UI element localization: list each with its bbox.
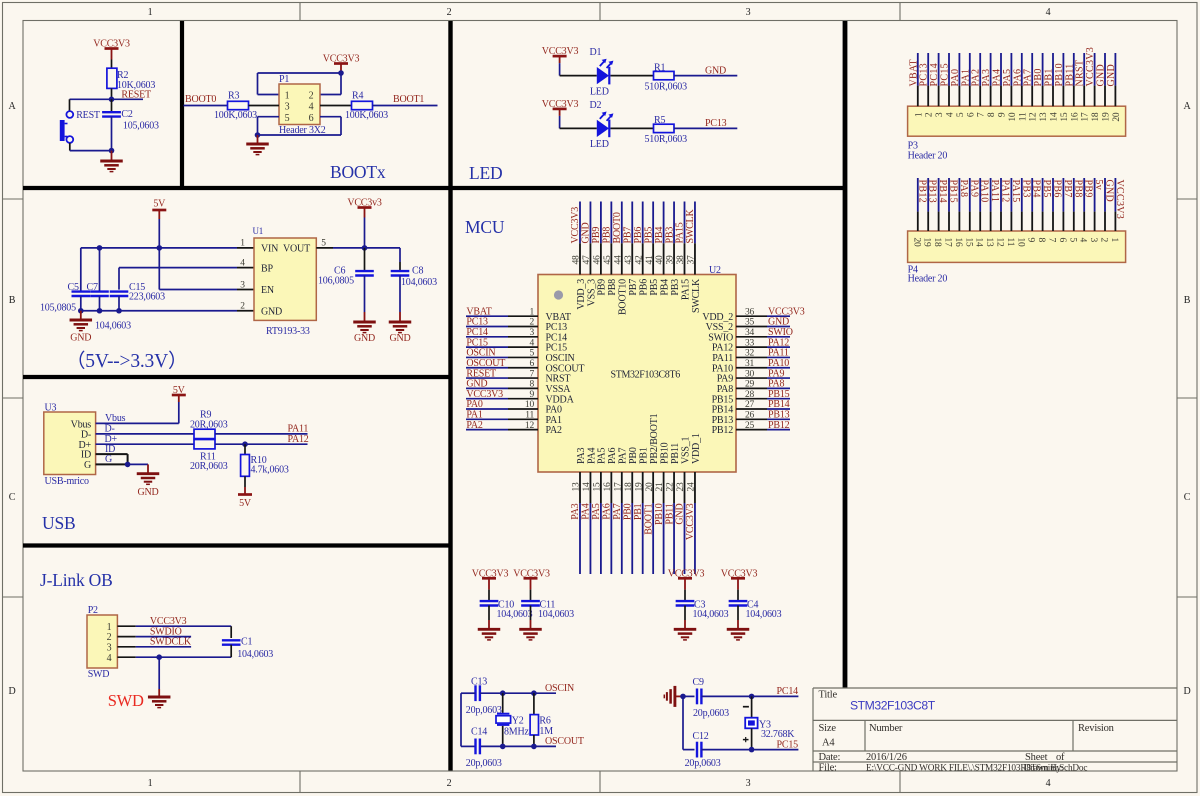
wire OSCIN rail [480, 692, 556, 694]
capacitor C8 [391, 262, 437, 312]
svg-text:47: 47 [582, 255, 592, 265]
capacitor C5 [40, 248, 90, 314]
regulator U1 RT9193-33 [253, 226, 317, 337]
svg-text:Header 20: Header 20 [908, 274, 948, 285]
svg-text:35: 35 [745, 318, 755, 328]
svg-text:SWCLK: SWCLK [691, 278, 702, 313]
svg-text:Vbus: Vbus [105, 413, 126, 424]
svg-text:42: 42 [634, 255, 644, 265]
U2 pin 33 (PA12) wire [736, 346, 790, 348]
svg-text:PA6: PA6 [1012, 69, 1023, 87]
svg-text:20p,0603: 20p,0603 [466, 705, 502, 716]
U2 pin 9 (VDDA) wire [466, 398, 538, 400]
left loop wire [461, 693, 476, 746]
svg-text:3: 3 [285, 102, 290, 113]
svg-text:PC14: PC14 [929, 63, 940, 86]
svg-text:11: 11 [1005, 238, 1015, 247]
svg-text:PA2: PA2 [971, 69, 982, 87]
svg-text:PB4: PB4 [659, 279, 670, 296]
svg-text:PB6: PB6 [1052, 180, 1063, 198]
P4 pin 19 wire / net PB13 [927, 178, 929, 231]
capacitor C10 [480, 590, 533, 621]
P4 pin 7 wire / net PB6 [1052, 178, 1054, 231]
svg-text:GND: GND [261, 306, 282, 317]
U2 pin 7 (NRST) wire [466, 377, 538, 379]
power flag VCC3v3 [347, 197, 382, 217]
svg-text:PB6: PB6 [633, 227, 644, 244]
svg-text:PA5: PA5 [597, 448, 608, 464]
svg-text:C: C [9, 492, 16, 503]
U2 pin 29 (PA8) wire [736, 387, 790, 389]
svg-text:7: 7 [1047, 238, 1057, 243]
junction gnd loop [255, 132, 261, 138]
U2 pin 46 (PB9) wire [600, 202, 602, 275]
svg-text:PA3: PA3 [570, 503, 581, 519]
svg-text:PB3: PB3 [664, 227, 675, 244]
svg-text:PB0: PB0 [1033, 68, 1044, 86]
svg-text:PB5: PB5 [649, 279, 660, 296]
svg-text:C7: C7 [87, 282, 98, 293]
svg-text:29: 29 [745, 380, 755, 390]
svg-text:10: 10 [525, 400, 535, 410]
U2 pin 44 (BOOT10) wire [621, 202, 623, 275]
junction Y2 bottom [500, 744, 506, 750]
svg-text:PB10: PB10 [659, 442, 670, 464]
svg-text:GND: GND [581, 222, 592, 243]
resistor R5 [645, 115, 688, 145]
svg-text:14: 14 [1050, 112, 1060, 122]
svg-text:4: 4 [309, 102, 314, 113]
svg-text:48: 48 [572, 255, 582, 265]
svg-text:12: 12 [525, 421, 535, 431]
LED D1 [590, 47, 614, 97]
junctions on GND rail [78, 308, 84, 314]
U2 pin 10 (PA0) wire [466, 408, 538, 410]
wire R2 to RESET node [111, 88, 113, 99]
svg-text:OSCOUT: OSCOUT [545, 736, 584, 747]
svg-text:5: 5 [285, 113, 290, 124]
svg-text:VOUT: VOUT [283, 244, 310, 255]
svg-text:45: 45 [603, 255, 613, 265]
pin 5 VOUT stub [316, 239, 333, 249]
svg-text:USB-mrico: USB-mrico [45, 476, 90, 487]
P3 pin 9 wire / net PA4 [1000, 53, 1002, 106]
wire gnd drop [158, 657, 160, 689]
svg-text:PA6: PA6 [607, 448, 618, 464]
svg-text:PA7: PA7 [1023, 69, 1034, 87]
svg-text:13: 13 [984, 238, 994, 248]
svg-text:8: 8 [529, 380, 534, 390]
wire VIN rail [81, 247, 237, 249]
svg-text:23: 23 [676, 482, 686, 492]
U2 pin 21 (PB10) wire [663, 472, 665, 574]
U2 pin 15 (PA5) wire [600, 472, 602, 574]
wire PC14 [702, 695, 799, 697]
U2 pin 27 (PB14) wire [736, 408, 790, 410]
svg-text:NRST: NRST [1075, 60, 1086, 87]
svg-text:Title: Title [819, 690, 838, 701]
wire RESET node horizontal [70, 98, 144, 100]
junction C7 top [97, 245, 103, 251]
svg-text:12: 12 [1029, 112, 1039, 122]
svg-text:2: 2 [447, 7, 452, 18]
svg-text:37: 37 [687, 255, 697, 265]
wire R11 to PA12 [215, 443, 308, 445]
U2 pin 2 (PC13) wire [466, 326, 538, 328]
svg-text:PB7: PB7 [628, 279, 639, 296]
P3 pin 11 wire / net PA6 [1021, 53, 1023, 106]
svg-text:6: 6 [1057, 238, 1067, 243]
svg-text:104,0603: 104,0603 [538, 609, 574, 620]
svg-text:33: 33 [745, 338, 755, 348]
U2 pin 45 (PB8) wire [610, 202, 612, 275]
capacitor C12 [683, 731, 721, 769]
svg-text:VSS_3: VSS_3 [586, 279, 597, 307]
svg-text:7: 7 [529, 369, 534, 379]
wire Vbus [96, 402, 179, 424]
svg-text:PA3: PA3 [981, 69, 992, 87]
svg-text:GND: GND [1104, 180, 1115, 203]
svg-text:15: 15 [1060, 112, 1070, 122]
svg-text:PC13: PC13 [705, 118, 727, 129]
resistor R10 [241, 444, 289, 487]
power flag VCC3V3 (C3) [668, 569, 705, 590]
svg-text:100K,0603: 100K,0603 [214, 110, 257, 121]
P4 pin 1 wire / net VCC3V3 [1114, 178, 1116, 231]
U2 pin 37 (SWCLK) wire [694, 202, 696, 275]
svg-text:8: 8 [987, 112, 997, 117]
svg-text:SWD: SWD [88, 669, 110, 680]
svg-text:20: 20 [911, 238, 921, 248]
wire VCC3V3 to LED D1 [560, 63, 597, 76]
svg-text:5: 5 [321, 239, 326, 249]
wire D+ to R11 [96, 434, 194, 445]
svg-text:PB14: PB14 [937, 180, 948, 203]
svg-text:PB9: PB9 [591, 227, 602, 244]
U2 pin 4 (PC15) wire [466, 346, 538, 348]
P3 pin 19 wire / net GND [1104, 53, 1106, 106]
svg-text:5: 5 [956, 112, 966, 117]
svg-text:PC15: PC15 [777, 739, 799, 750]
svg-text:2: 2 [107, 632, 112, 643]
wire bottom loop pin5 [258, 117, 342, 135]
junction Y2 top [500, 690, 506, 696]
wire button bottom [70, 150, 112, 152]
svg-text:2: 2 [309, 90, 314, 101]
svg-text:5v: 5v [1093, 180, 1104, 191]
svg-text:26: 26 [745, 411, 755, 421]
svg-text:1: 1 [285, 90, 290, 101]
U2 pin 17 (PA7) wire [621, 472, 623, 574]
junction 5V stem [157, 245, 163, 251]
wire C9-C12 left drop [682, 696, 684, 749]
svg-text:C5: C5 [68, 282, 79, 293]
svg-text:6: 6 [529, 359, 534, 369]
svg-text:8: 8 [1036, 238, 1046, 243]
svg-text:PB1: PB1 [1044, 68, 1055, 86]
svg-text:3: 3 [1088, 238, 1098, 243]
svg-text:5V: 5V [153, 199, 166, 210]
svg-text:PA4: PA4 [581, 503, 592, 519]
svg-text:41: 41 [645, 255, 655, 265]
P4 pin 16 wire / net PA8 [958, 178, 960, 231]
svg-text:2016/1/26: 2016/1/26 [866, 752, 907, 763]
svg-text:of: of [1056, 752, 1065, 763]
ground (C8) [389, 322, 412, 333]
P4 pin 2 wire / net GND [1104, 178, 1106, 231]
svg-text:104,0603: 104,0603 [95, 321, 131, 332]
P4 pin 13 wire / net PA11 [990, 178, 992, 231]
P3 pin 10 wire / net PA5 [1010, 53, 1012, 106]
wire 5V down [158, 219, 160, 248]
svg-text:2: 2 [529, 318, 534, 328]
svg-text:D1: D1 [590, 47, 602, 58]
U2 pin 32 (PA11) wire [736, 356, 790, 358]
svg-text:17: 17 [613, 482, 623, 492]
svg-text:Revision: Revision [1078, 723, 1115, 734]
U2 pin 30 (PA9) wire [736, 377, 790, 379]
resistor R9 [190, 410, 228, 439]
svg-text:PB12: PB12 [712, 425, 734, 436]
header P1 (Header 3X2) [279, 74, 326, 136]
U2 pin 28 (PB15) wire [736, 398, 790, 400]
svg-text:PB8: PB8 [1072, 180, 1083, 198]
gnd stem (C5) [80, 311, 82, 320]
connector P3 (Header 20) [908, 106, 1126, 161]
svg-text:R6: R6 [539, 715, 550, 726]
svg-text:D: D [8, 686, 15, 697]
svg-text:PA0: PA0 [950, 69, 961, 87]
svg-text:4: 4 [1078, 238, 1088, 243]
svg-text:PB9: PB9 [597, 279, 608, 296]
wire to gnd [128, 463, 148, 465]
svg-text:VCC3V3: VCC3V3 [570, 207, 581, 244]
svg-text:BOOT1: BOOT1 [393, 94, 424, 105]
svg-text:104,0603: 104,0603 [497, 609, 533, 620]
P4 pin 10 wire / net PB3 [1021, 178, 1023, 231]
U2 pin 41 (PB5) wire [652, 202, 654, 275]
svg-text:20p,0603: 20p,0603 [466, 758, 502, 769]
svg-text:4: 4 [1046, 778, 1051, 789]
svg-text:D: D [1183, 686, 1190, 697]
pin 2 GND stub [237, 302, 254, 312]
P4 pin 3 wire / net 5v [1094, 178, 1096, 231]
svg-text:B: B [1184, 295, 1191, 306]
svg-text:BOOT0: BOOT0 [612, 212, 623, 243]
svg-text:GND: GND [137, 487, 158, 498]
resistor R11 [190, 440, 228, 473]
svg-text:28: 28 [745, 390, 755, 400]
svg-text:PA4: PA4 [992, 69, 1003, 87]
U2 pin 13 (PA3) wire [579, 472, 581, 574]
svg-text:3: 3 [746, 7, 751, 18]
wire EN from 5V line [159, 248, 237, 290]
svg-text:10: 10 [1008, 112, 1018, 122]
svg-text:20R,0603: 20R,0603 [190, 461, 228, 472]
svg-text:VCC3V3: VCC3V3 [1085, 47, 1096, 87]
svg-text:8MHz: 8MHz [504, 726, 530, 737]
svg-text:104,0603: 104,0603 [237, 649, 273, 660]
wire VCC3v3 down [364, 218, 366, 248]
U2 pin 35 (VSS_2) wire [736, 326, 790, 328]
resistor R2 [107, 68, 155, 91]
svg-text:11: 11 [525, 411, 534, 421]
svg-text:G: G [105, 454, 112, 465]
U2 pin 48 (VDD_3) wire [579, 202, 581, 275]
U2 pin 22 (PB11) wire [673, 472, 675, 574]
svg-text:PB0: PB0 [628, 447, 639, 464]
svg-text:39: 39 [666, 255, 676, 265]
svg-text:46: 46 [593, 255, 603, 265]
ground (reset) [100, 161, 123, 172]
svg-text:PB10: PB10 [654, 503, 665, 525]
svg-text:27: 27 [745, 400, 755, 410]
gnd stem (C3) [684, 620, 686, 629]
wire P2 pin1 VCC3V3 [117, 616, 231, 627]
svg-text:GND: GND [1106, 64, 1117, 87]
svg-text:GND: GND [705, 65, 726, 76]
junction VOUT [362, 245, 368, 251]
wire VCC3V3 down to loop [340, 73, 342, 95]
svg-text:G: G [84, 460, 91, 471]
gnd stem (C6) [364, 312, 366, 322]
wire VCC3V3 to LED D2 [560, 116, 597, 128]
crystal Y2 [496, 693, 530, 746]
svg-text:5: 5 [529, 349, 534, 359]
svg-text:22: 22 [666, 482, 676, 492]
svg-text:PB4: PB4 [1031, 180, 1042, 198]
svg-text:PB1: PB1 [639, 447, 650, 464]
resistor R6 [530, 693, 553, 746]
svg-text:VSS_1: VSS_1 [680, 436, 691, 464]
svg-text:20p,0603: 20p,0603 [693, 708, 729, 719]
svg-text:PA11: PA11 [989, 180, 1000, 203]
svg-text:VCC3V3: VCC3V3 [150, 616, 187, 627]
P4 pin 15 wire / net PA9 [969, 178, 971, 231]
power flag VCC3V3 (C11) [513, 569, 550, 590]
svg-text:106,0805: 106,0805 [318, 276, 354, 287]
svg-text:1: 1 [107, 622, 112, 633]
P3 pin 15 wire / net PB10 [1062, 53, 1064, 106]
pin 1 VIN stub [237, 239, 254, 249]
P3 pin 13 wire / net PB0 [1042, 53, 1044, 106]
capacitor C2 [102, 109, 159, 132]
wire D- to R9 [96, 424, 194, 435]
svg-text:104,0603: 104,0603 [401, 277, 437, 288]
ground (regulator input) [70, 320, 93, 331]
pin 3 EN stub [237, 280, 254, 290]
svg-text:4: 4 [529, 338, 534, 348]
svg-text:PA2: PA2 [546, 425, 562, 436]
connector U3 USB-micro [44, 403, 96, 487]
svg-text:2: 2 [240, 302, 245, 312]
wire P2 pin2 SWDIO [117, 626, 191, 637]
svg-text:30: 30 [745, 369, 755, 379]
P4 pin 18 wire / net PB14 [938, 178, 940, 231]
svg-text:VDD_3: VDD_3 [576, 279, 587, 310]
svg-text:1: 1 [148, 778, 153, 789]
svg-text:PC15: PC15 [940, 63, 951, 86]
svg-text:GND: GND [675, 504, 686, 525]
svg-text:C1: C1 [241, 637, 252, 648]
svg-text:Header 20: Header 20 [908, 150, 948, 161]
svg-text:4: 4 [1046, 7, 1051, 18]
svg-text:File:: File: [819, 762, 838, 773]
svg-text:LED: LED [590, 86, 609, 97]
svg-text:32: 32 [745, 349, 755, 359]
power flag VCC3V3 (reset circuit) [93, 39, 130, 60]
P3 pin 17 wire / net NRST [1083, 53, 1085, 106]
U2 pin 18 (PB0) wire [631, 472, 633, 574]
svg-text:PB12: PB12 [768, 420, 790, 431]
power flag VCC3V3 (BOOTx) [323, 54, 360, 73]
svg-text:U1: U1 [253, 226, 264, 236]
svg-text:SWD: SWD [108, 691, 144, 710]
thick section divider lines [23, 21, 845, 771]
capacitor C14 [466, 727, 502, 769]
ground (Y3, rotated) [664, 686, 675, 707]
U2 pin 1 (VBAT) wire [466, 315, 538, 317]
svg-text:100K,0603: 100K,0603 [345, 110, 388, 121]
capacitor C11 [521, 590, 574, 621]
svg-text:PB1: PB1 [633, 503, 644, 520]
P3 pin 4 wire / net PC15 [948, 53, 950, 106]
svg-text:SWCLK: SWCLK [685, 209, 696, 244]
svg-text:PA7: PA7 [612, 503, 623, 519]
U2 pin 39 (PB3) wire [673, 202, 675, 275]
gnd stem (C4) [737, 620, 739, 629]
svg-text:3: 3 [107, 643, 112, 654]
junction Y3 top [749, 694, 755, 700]
junction gnd/C9 [680, 694, 686, 700]
gnd stem [111, 151, 113, 161]
wire R1 to GND [674, 75, 737, 77]
svg-text:223,0603: 223,0603 [129, 291, 165, 302]
gnd stem (C8) [399, 312, 401, 322]
svg-text:BOOT0: BOOT0 [185, 94, 216, 105]
svg-text:PA8: PA8 [958, 180, 969, 198]
wire BOOT0 [184, 105, 229, 107]
P3 pin 8 wire / net PA3 [990, 53, 992, 106]
svg-text:PB8: PB8 [602, 227, 613, 244]
wire R5 to PC13 [674, 127, 737, 129]
svg-text:PC13: PC13 [919, 63, 930, 86]
svg-text:BOOT10: BOOT10 [618, 279, 629, 315]
svg-text:105,0603: 105,0603 [123, 121, 159, 132]
svg-text:EN: EN [261, 285, 274, 296]
wire VCC3V3 to R2 [111, 60, 113, 69]
wire C2 to gnd node [111, 117, 113, 151]
svg-text:PB2/BOOT1: PB2/BOOT1 [649, 413, 660, 464]
svg-text:PA9: PA9 [968, 180, 979, 198]
P4 pin 8 wire / net PB5 [1042, 178, 1044, 231]
svg-text:14: 14 [582, 482, 592, 492]
svg-text:15: 15 [963, 238, 973, 248]
capacitor C7 [87, 248, 132, 332]
wire R3 to P1 pin3 [249, 105, 280, 107]
wire top loop left [258, 73, 342, 95]
power flag VCC3V3 (C10) [472, 569, 509, 590]
P4 pin 17 wire / net PB15 [948, 178, 950, 231]
capacitor C4 [729, 590, 782, 621]
junction pin4/gnd [156, 654, 162, 660]
svg-text:4: 4 [107, 653, 112, 664]
svg-text:VIN: VIN [261, 244, 278, 255]
svg-text:1: 1 [529, 307, 534, 317]
resistor R4 [345, 91, 388, 122]
svg-text:PA12: PA12 [1000, 180, 1011, 203]
svg-text:5V: 5V [239, 498, 252, 509]
